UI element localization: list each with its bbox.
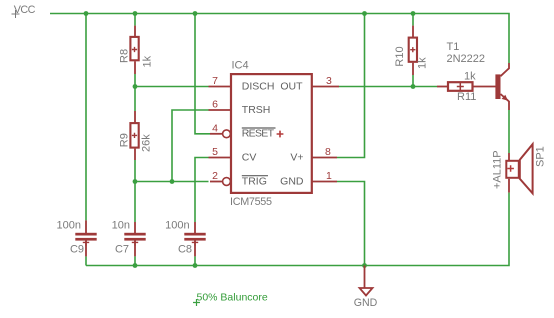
wire DISCH row to pin 7 xyxy=(135,86,209,88)
svg-text:V+: V+ xyxy=(290,151,303,163)
svg-text:R8: R8 xyxy=(119,49,131,63)
svg-text:26k: 26k xyxy=(141,134,153,152)
junction node TRIG at x=135 xyxy=(133,179,138,184)
pin 1 GND stub xyxy=(312,181,337,183)
junction ground rail at x=195 xyxy=(193,263,198,268)
pin 8 V+ stub xyxy=(312,157,337,159)
junction top rail at x=135 xyxy=(133,11,138,16)
wire VCC to RESET pin 4 xyxy=(195,14,210,134)
wire R10 to OUT row xyxy=(412,75,414,87)
resistor R8 xyxy=(119,26,154,74)
svg-text:2: 2 xyxy=(212,170,218,182)
svg-text:TRSH: TRSH xyxy=(242,104,271,116)
wire C8 bottom to ground rail xyxy=(194,256,196,265)
svg-text:TRIG: TRIG xyxy=(242,175,267,187)
svg-text:IC4: IC4 xyxy=(232,60,249,72)
pin 6 TRSH stub xyxy=(209,109,232,111)
junction ground rail at x=364.5 xyxy=(362,263,367,268)
wire R9 to node TRIG xyxy=(134,160,136,222)
resistor R10 xyxy=(394,26,429,75)
wire GND pin to ground rail xyxy=(337,182,365,266)
wire R8 to node DISCH xyxy=(134,74,136,111)
svg-text:GND: GND xyxy=(354,297,378,309)
svg-text:ICM7555: ICM7555 xyxy=(230,196,272,208)
svg-text:+AL11P: +AL11P xyxy=(492,150,504,189)
pin 4 RESET stub with bubble xyxy=(210,130,230,138)
resistor R11 xyxy=(437,71,496,104)
ground symbol GND xyxy=(354,266,378,310)
svg-text:3: 3 xyxy=(326,75,332,87)
svg-text:2N2222: 2N2222 xyxy=(447,53,486,65)
svg-text:1k: 1k xyxy=(464,71,476,83)
IC4 origin cross xyxy=(277,131,284,138)
wire VCC to R10 xyxy=(412,14,414,26)
capacitor C9 xyxy=(57,219,97,256)
svg-text:R10: R10 xyxy=(394,46,406,66)
svg-text:R11: R11 xyxy=(457,91,476,103)
svg-text:1: 1 xyxy=(326,170,332,182)
capacitor C8 xyxy=(165,219,206,256)
svg-text:SP1: SP1 xyxy=(535,146,547,167)
pin name RESET (overline) xyxy=(242,128,276,140)
wire TRIG row to pin 2 xyxy=(135,181,209,183)
junction OUT at x=413 xyxy=(411,84,416,89)
junction top rail at x=195 xyxy=(193,11,198,16)
capacitor C7 xyxy=(112,219,146,256)
wire VCC top rail xyxy=(50,14,509,64)
wire VCC to C9 (left rail) xyxy=(85,14,87,221)
svg-text:8: 8 xyxy=(325,146,331,158)
pin 3 OUT stub xyxy=(312,86,339,88)
pin 2 TRIG stub with bubble xyxy=(210,178,230,186)
svg-text:5: 5 xyxy=(212,146,218,158)
supply symbol VCC xyxy=(12,4,36,18)
svg-text:C8: C8 xyxy=(178,243,192,255)
svg-text:100n: 100n xyxy=(165,219,189,231)
wire OUT row xyxy=(339,86,437,88)
svg-text:50% Baluncore: 50% Baluncore xyxy=(197,291,268,303)
svg-text:C7: C7 xyxy=(115,243,129,255)
junction ground rail at x=135 xyxy=(133,263,138,268)
wire speaker to ground rail xyxy=(86,193,509,266)
junction top rail at x=364.5 xyxy=(362,11,367,16)
label 50% Baluncore xyxy=(193,291,268,306)
wire VCC to R8 xyxy=(134,14,136,26)
speaker SP1 xyxy=(492,144,547,193)
wire TRSH link xyxy=(172,110,209,182)
wire V+ to VCC rail xyxy=(337,14,365,158)
junction top rail at x=86 xyxy=(84,11,89,16)
svg-text:10n: 10n xyxy=(112,219,130,231)
junction top rail at x=413 xyxy=(411,11,416,16)
svg-text:1k: 1k xyxy=(141,55,153,67)
svg-text:OUT: OUT xyxy=(280,80,303,92)
svg-text:RESET: RESET xyxy=(242,128,275,140)
svg-text:4: 4 xyxy=(212,122,218,134)
resistor R9 xyxy=(119,111,153,160)
svg-text:1k: 1k xyxy=(417,57,429,69)
wire C7 bottom to ground rail xyxy=(134,256,136,265)
svg-text:GND: GND xyxy=(280,175,304,187)
pin 7 DISCH stub xyxy=(209,86,232,88)
svg-text:C9: C9 xyxy=(70,243,84,255)
wire CV to C8 xyxy=(195,158,209,223)
svg-text:T1: T1 xyxy=(447,41,460,53)
transistor T1 2N2222 xyxy=(447,41,510,110)
junction node TRIG at x=172 xyxy=(170,179,175,184)
svg-text:R9: R9 xyxy=(119,133,131,147)
pin 5 CV stub xyxy=(209,157,232,159)
svg-text:CV: CV xyxy=(242,151,257,163)
wire T1 emitter to speaker xyxy=(508,110,510,153)
svg-text:6: 6 xyxy=(212,99,218,111)
junction node DISCH xyxy=(133,84,138,89)
pin name TRIG (overline) xyxy=(242,175,268,187)
svg-text:100n: 100n xyxy=(57,219,81,231)
svg-text:DISCH: DISCH xyxy=(242,80,275,92)
IC U-box IC4 ICM7555 xyxy=(230,60,312,209)
wire C9 bottom to ground rail xyxy=(85,256,87,265)
svg-text:7: 7 xyxy=(212,75,218,87)
